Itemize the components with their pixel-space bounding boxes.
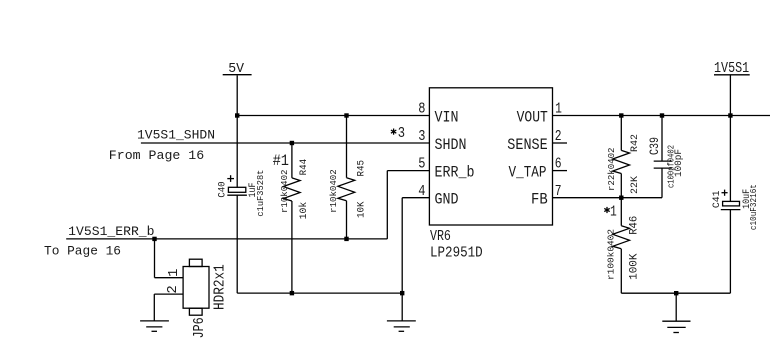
resistor R44 <box>280 159 310 220</box>
wire VOUT net to 1V5S1 <box>553 115 770 117</box>
svg-text:C41: C41 <box>712 191 723 209</box>
resistor R45 <box>329 160 368 218</box>
wire R45 bottom lead <box>346 201 348 239</box>
wire R44 bottom lead <box>291 201 293 293</box>
svg-text:r100k0402: r100k0402 <box>607 229 617 280</box>
svg-text:R44: R44 <box>299 159 310 176</box>
svg-text:R42: R42 <box>630 134 641 152</box>
svg-text:100pF: 100pF <box>674 149 685 177</box>
capacitor C39 <box>647 116 685 198</box>
wire ERR_b vertical riser <box>386 171 388 239</box>
svg-text:From Page 16: From Page 16 <box>109 148 204 163</box>
resistor R46 <box>607 216 641 280</box>
wire ERR_b net horizontal <box>66 238 387 240</box>
resistor R42 <box>607 134 641 194</box>
wire 5V vertical to C40 <box>236 75 238 187</box>
svg-text:4: 4 <box>418 183 425 200</box>
svg-text:C39: C39 <box>647 137 662 155</box>
svg-text:r10k0402: r10k0402 <box>280 170 290 214</box>
wire SHDN net to pin 3 <box>141 142 430 144</box>
svg-text:10k: 10k <box>298 202 310 220</box>
junction VOUT/R42 <box>619 113 623 117</box>
svg-text:#1: #1 <box>273 152 289 170</box>
svg-text:VIN: VIN <box>435 108 459 126</box>
power symbol 1V5S1 <box>714 60 750 77</box>
wire R45 top lead <box>346 116 348 178</box>
junction ERR_b/JP6 <box>152 237 156 241</box>
capacitor C40 <box>218 170 267 217</box>
svg-text:1: 1 <box>610 204 617 221</box>
wire R42 bottom lead <box>620 174 622 198</box>
wire R42 top lead <box>620 116 622 151</box>
junction R44/ground bus <box>290 291 294 295</box>
wire JP6 pin2 <box>154 293 183 295</box>
junction right ground <box>674 291 678 295</box>
op-amp/regulator VR6 LP2951D <box>429 88 552 261</box>
junction SHDN/R44 <box>290 141 294 145</box>
junction VOUT/1V5S1 <box>728 113 732 117</box>
wire right ground bus <box>621 292 730 294</box>
wire R46 top lead <box>620 198 622 226</box>
svg-text:2: 2 <box>165 285 181 293</box>
svg-text:c1uF3528t: c1uF3528t <box>256 170 266 217</box>
junction 5V/VIN <box>235 113 239 117</box>
svg-text:FB: FB <box>531 191 548 209</box>
wire 5V to VIN pin 8 <box>237 115 429 117</box>
wire GND pin 4 stub <box>402 197 429 199</box>
wire JP6 pin1 riser <box>154 239 156 278</box>
svg-text:R45: R45 <box>357 160 368 177</box>
svg-text:GND: GND <box>435 191 459 209</box>
svg-text:VR6: VR6 <box>430 228 451 245</box>
svg-text:3: 3 <box>398 125 405 142</box>
svg-text:R46: R46 <box>628 216 640 235</box>
note *1 <box>604 204 617 221</box>
net label 1V5S1_ERR_b <box>44 224 155 259</box>
svg-text:10K: 10K <box>357 202 368 219</box>
wire left ground bus <box>237 292 402 294</box>
wire FB net <box>553 197 663 199</box>
svg-text:c10uF3216t: c10uF3216t <box>749 184 759 230</box>
svg-text:1V5S1_SHDN: 1V5S1_SHDN <box>137 127 215 142</box>
junction VOUT/C39 <box>660 113 664 117</box>
svg-text:5: 5 <box>418 156 425 173</box>
svg-text:r22k0402: r22k0402 <box>607 148 617 192</box>
svg-text:r10k0402: r10k0402 <box>329 169 339 213</box>
svg-text:JP6: JP6 <box>191 317 208 338</box>
svg-text:1: 1 <box>166 269 182 277</box>
svg-text:To Page 16: To Page 16 <box>44 244 121 259</box>
junction 5V/R45 <box>344 113 348 117</box>
wire V_TAP pin 6 stub <box>553 170 568 172</box>
svg-text:C40: C40 <box>218 181 229 197</box>
junction R45/ERR_b net <box>344 237 348 241</box>
power symbol 5V <box>223 61 252 77</box>
junction ground bus <box>400 291 404 295</box>
wire JP6 pin2 to ground <box>153 294 155 321</box>
connector JP6 HDR2x1 <box>183 259 228 338</box>
junction FB/R42/R46 <box>619 196 623 200</box>
wire 1V5S1 vertical to C41 <box>729 75 731 201</box>
wire JP6 pin1 <box>155 277 184 279</box>
svg-text:LP2951D: LP2951D <box>430 244 483 261</box>
net label 1V5S1_SHDN <box>109 127 215 163</box>
wire R44 top lead <box>291 143 293 178</box>
svg-text:SENSE: SENSE <box>507 136 547 154</box>
svg-text:8: 8 <box>418 101 425 118</box>
wire GND vertical <box>401 198 403 293</box>
svg-text:V_TAP: V_TAP <box>509 164 547 182</box>
svg-text:100K: 100K <box>628 253 640 280</box>
ground symbol center <box>387 293 416 331</box>
capacitor C41 <box>712 184 759 230</box>
svg-text:ERR_b: ERR_b <box>435 164 475 182</box>
svg-text:22K: 22K <box>630 176 641 194</box>
svg-text:HDR2x1: HDR2x1 <box>211 264 228 310</box>
ground symbol JP6 <box>140 321 169 331</box>
wire R46 bottom lead <box>620 249 622 293</box>
ground symbol right <box>662 293 690 332</box>
svg-text:1V5S1_ERR_b: 1V5S1_ERR_b <box>68 224 154 239</box>
note *3 <box>391 125 405 142</box>
svg-text:SHDN: SHDN <box>435 136 467 154</box>
svg-text:VOUT: VOUT <box>517 108 548 126</box>
svg-text:3: 3 <box>418 128 425 145</box>
wire ERR_b to pin 5 <box>387 170 429 172</box>
wire C41 bottom lead <box>729 210 731 294</box>
wire C40 bottom lead <box>236 195 238 293</box>
wire SENSE pin 2 stub <box>553 142 568 144</box>
